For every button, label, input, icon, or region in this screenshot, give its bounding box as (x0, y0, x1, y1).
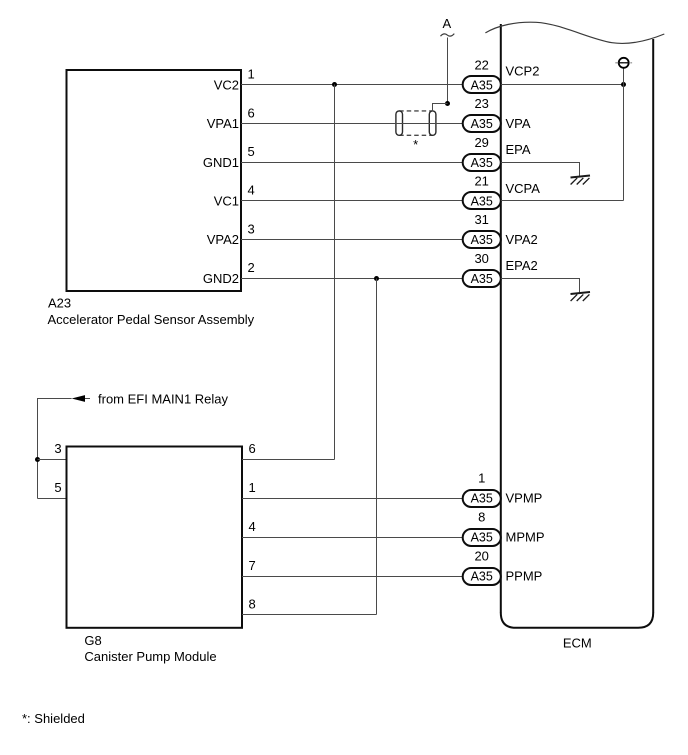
svg-text:8: 8 (249, 596, 256, 611)
svg-text:4: 4 (248, 183, 255, 198)
svg-text:VC1: VC1 (214, 193, 239, 208)
svg-text:Accelerator Pedal Sensor Assem: Accelerator Pedal Sensor Assembly (48, 312, 255, 327)
ECM connector oval A35 pin 21 (463, 192, 501, 209)
svg-text:VPA1: VPA1 (207, 116, 239, 131)
wire G8 pin 4 to ECM MPMP (242, 537, 463, 539)
wire from EFI MAIN1 Relay feed (38, 399, 72, 499)
node A break tilde (441, 34, 455, 37)
wire G8 pin 8 horizontal (242, 614, 377, 616)
svg-text:VPA2: VPA2 (506, 232, 538, 247)
ECM connector oval A35 pin 1 (463, 490, 501, 507)
wire riser from G8 pin 8 to GND2 wire (376, 279, 378, 615)
svg-text:VPMP: VPMP (506, 491, 543, 506)
junction dot on GND2 wire (374, 276, 379, 281)
ECM connector oval A35 pin 8 (463, 529, 501, 546)
connector A23 Accelerator Pedal Sensor Assembly (box) (67, 70, 242, 291)
shield symbol right capsule (429, 111, 436, 135)
svg-text:PPMP: PPMP (506, 569, 543, 584)
svg-text:29: 29 (474, 135, 488, 150)
ECM connector oval A35 pin 31 (463, 231, 501, 248)
ECM connector oval A35 pin 29 (463, 154, 501, 171)
svg-text:A35: A35 (471, 78, 493, 92)
wire G8 pin 6 horizontal (242, 459, 335, 461)
wire riser from G8 pin 6 to VC2 wire (334, 85, 336, 460)
svg-text:21: 21 (474, 173, 488, 188)
wire VPA1 to ECM pin 23 (241, 123, 463, 125)
ground symbol EPA2 (571, 292, 591, 301)
svg-text:3: 3 (54, 441, 61, 456)
wire VCPA internal (501, 200, 624, 202)
svg-text:from EFI MAIN1 Relay: from EFI MAIN1 Relay (98, 391, 229, 406)
wire VC1 to ECM pin 21 (241, 200, 463, 202)
wire from shield drain dot to shield braid (433, 104, 448, 112)
svg-text:20: 20 (474, 549, 488, 564)
wire stub G8 pin 5 (38, 498, 67, 500)
svg-text:Canister Pump Module: Canister Pump Module (84, 649, 216, 664)
svg-text:22: 22 (474, 57, 488, 72)
svg-text:5: 5 (248, 144, 255, 159)
svg-text:VPA: VPA (506, 116, 531, 131)
svg-text:A35: A35 (471, 492, 493, 506)
svg-text:1: 1 (478, 471, 485, 486)
svg-text:A35: A35 (471, 156, 493, 170)
connector G8 Canister Pump Module (box) (67, 447, 243, 628)
arrowhead from EFI MAIN1 Relay (72, 395, 85, 402)
wire VPA2 to ECM pin 31 (241, 239, 463, 241)
svg-text:3: 3 (248, 221, 255, 236)
svg-text:6: 6 (249, 441, 256, 456)
svg-text:VCP2: VCP2 (506, 64, 540, 79)
wire G8 pin 7 to ECM PPMP (242, 576, 463, 578)
svg-text:A: A (442, 16, 451, 31)
shield symbol dashed braid around VPA1 wire (399, 111, 432, 135)
ECM connector oval A35 pin 23 (463, 115, 501, 132)
svg-text:ECM: ECM (563, 636, 592, 651)
wire GND2 to ECM pin 30 (241, 278, 463, 280)
svg-text:EPA2: EPA2 (506, 258, 538, 273)
wire internal vertical VCP2 to VCPA (623, 68, 625, 201)
ECM box wavy break top edge (485, 22, 664, 43)
svg-text:*: * (413, 137, 418, 152)
wire from node A down to shield junction (447, 38, 449, 104)
svg-text:A35: A35 (471, 117, 493, 131)
ECM box left edge (500, 24, 502, 613)
svg-text:MPMP: MPMP (506, 530, 545, 545)
svg-text:8: 8 (478, 510, 485, 525)
svg-text:GND2: GND2 (203, 271, 239, 286)
svg-text:1: 1 (249, 480, 256, 495)
wire VC2 to ECM pin 22 (241, 84, 463, 86)
ECM box right edge (652, 39, 654, 613)
svg-text:G8: G8 (84, 633, 101, 648)
svg-text:A35: A35 (471, 570, 493, 584)
svg-text:*: Shielded: *: Shielded (22, 711, 85, 726)
svg-text:23: 23 (474, 96, 488, 111)
svg-text:1: 1 (248, 67, 255, 82)
ECM connector oval A35 pin 22 (463, 76, 501, 93)
shield symbol left capsule (396, 111, 403, 135)
svg-text:4: 4 (249, 519, 256, 534)
svg-text:6: 6 (248, 105, 255, 120)
junction dot G8 pin 3 feed (35, 457, 40, 462)
ECM connector oval A35 pin 30 (463, 270, 501, 287)
arrow tail stub (85, 398, 90, 400)
svg-text:A35: A35 (471, 531, 493, 545)
svg-text:30: 30 (474, 251, 488, 266)
wire EPA2 internal to ground (501, 279, 580, 294)
wire EPA internal to ground (501, 163, 580, 177)
wire VCP2 internal to shield circle node (501, 84, 624, 86)
svg-text:A35: A35 (471, 194, 493, 208)
shield termination circle symbol (615, 58, 632, 68)
svg-text:A35: A35 (471, 272, 493, 286)
svg-text:GND1: GND1 (203, 155, 239, 170)
ECM connector oval A35 pin 20 (463, 568, 501, 585)
svg-text:A23: A23 (48, 296, 71, 311)
junction dot on VC2 wire (332, 82, 337, 87)
svg-text:7: 7 (249, 558, 256, 573)
svg-text:2: 2 (248, 260, 255, 275)
wire stub G8 pin 3 (38, 459, 67, 461)
svg-text:VC2: VC2 (214, 77, 239, 92)
junction dot VCP2/VCPA internal (621, 82, 626, 87)
svg-text:A35: A35 (471, 233, 493, 247)
svg-text:31: 31 (474, 212, 488, 227)
svg-text:5: 5 (54, 480, 61, 495)
svg-text:EPA: EPA (506, 142, 531, 157)
wire GND1 to ECM pin 29 (241, 162, 463, 164)
svg-text:VPA2: VPA2 (207, 232, 239, 247)
wire G8 pin 1 to ECM VPMP (242, 498, 463, 500)
ECM box bottom edge with rounded corners (501, 613, 653, 628)
junction dot shield drain node (445, 101, 450, 106)
ground symbol EPA (571, 176, 591, 185)
svg-text:VCPA: VCPA (506, 181, 541, 196)
